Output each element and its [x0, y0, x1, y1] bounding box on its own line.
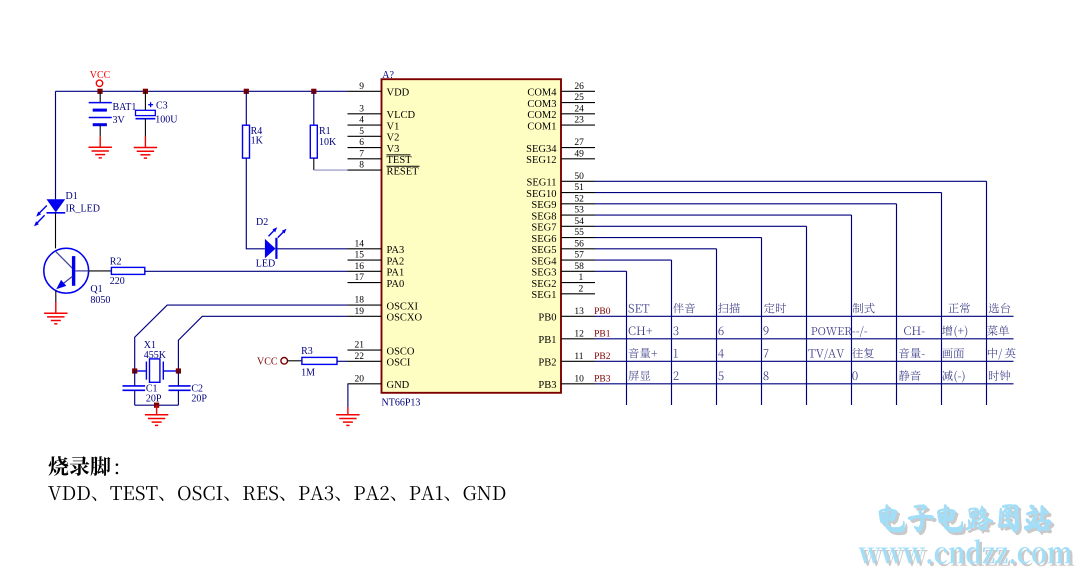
pin 13 PB0 stub — [561, 315, 595, 317]
junction oscillator ground node — [154, 403, 159, 408]
wire SEG3 horizontal — [595, 270, 627, 272]
svg-text:SEG34: SEG34 — [526, 144, 557, 155]
svg-text:220: 220 — [110, 276, 125, 287]
svg-text:20P: 20P — [191, 394, 207, 405]
svg-text:A?: A? — [382, 70, 394, 81]
pin 57 SEG4 stub — [561, 259, 595, 261]
matrix label 3 — [673, 326, 678, 335]
svg-text:14: 14 — [355, 239, 365, 249]
svg-text:PB3: PB3 — [594, 374, 611, 384]
svg-text:SEG6: SEG6 — [531, 234, 556, 245]
svg-text:PB3: PB3 — [538, 380, 556, 391]
wire BAT1 ground stub — [99, 136, 101, 147]
svg-text:BAT1: BAT1 — [113, 102, 137, 113]
wire SEG4 vertical (matrix column) — [671, 260, 673, 405]
pin 27 SEG34 stub — [561, 147, 595, 149]
svg-text:52: 52 — [574, 194, 584, 204]
matrix label 6 — [718, 326, 723, 335]
svg-text:C3: C3 — [156, 101, 168, 112]
pin 8 RESET stub — [348, 169, 382, 171]
pin 23 COM1 stub — [561, 124, 595, 126]
pin 51 SEG10 stub — [561, 192, 595, 194]
pin 6 V3 stub — [348, 147, 382, 149]
wire R4 to D2 — [246, 158, 265, 249]
svg-text:SEG9: SEG9 — [531, 200, 556, 211]
svg-text:R2: R2 — [110, 257, 122, 268]
svg-text:1M: 1M — [301, 368, 315, 379]
wire SEG7 horizontal — [595, 225, 807, 227]
capacitor C2 — [169, 386, 191, 390]
wire SEG11 horizontal — [595, 180, 987, 182]
svg-text:17: 17 — [355, 273, 365, 283]
wire R1 bottom lead — [313, 158, 315, 170]
svg-text:SEG12: SEG12 — [526, 155, 556, 166]
junction VCC/R4 — [244, 89, 249, 94]
svg-text:51: 51 — [574, 183, 584, 193]
svg-text:58: 58 — [574, 262, 584, 272]
svg-text:PB1: PB1 — [538, 335, 556, 346]
matrix label 1 — [674, 349, 678, 358]
pin 4 V1 stub — [348, 124, 382, 126]
wire PB2 matrix row — [595, 360, 1014, 362]
svg-text:7: 7 — [359, 149, 364, 159]
matrix label YinLiang- — [899, 348, 909, 358]
wire Q1 base to R2 — [89, 270, 112, 272]
svg-text:SEG1: SEG1 — [531, 290, 556, 301]
pin 20 GND stub — [348, 383, 382, 385]
svg-text:455K: 455K — [144, 350, 167, 361]
svg-text:SEG5: SEG5 — [531, 245, 556, 256]
svg-text:20: 20 — [355, 374, 365, 384]
svg-text:23: 23 — [574, 116, 584, 126]
junction X1 left node — [132, 368, 137, 373]
matrix label ZhengChang — [948, 303, 958, 313]
note programming pin list — [48, 486, 61, 500]
svg-text:PA3: PA3 — [387, 245, 405, 256]
svg-text:GND: GND — [387, 380, 410, 391]
diode D2 LED — [265, 238, 277, 259]
matrix label JingYin — [899, 370, 910, 380]
svg-text:D1: D1 — [66, 191, 78, 202]
pin 26 COM4 stub — [561, 90, 595, 92]
wire SEG5 vertical (matrix column) — [716, 249, 718, 405]
wire BAT1 top lead — [99, 91, 101, 102]
svg-text:16: 16 — [355, 262, 365, 272]
matrix label HuaMian — [942, 348, 952, 358]
matrix label 2 — [674, 371, 679, 380]
svg-text:20P: 20P — [146, 394, 162, 405]
svg-text:1K: 1K — [251, 136, 264, 147]
wire D1 to Q1 collector — [55, 213, 57, 249]
pin 55 SEG6 stub — [561, 237, 595, 239]
svg-text:5: 5 — [359, 127, 364, 137]
svg-text:COM2: COM2 — [527, 110, 556, 121]
battery BAT1 — [89, 103, 112, 125]
pin 15 PA2 stub — [348, 259, 382, 261]
svg-text:24: 24 — [574, 104, 584, 114]
svg-text:PA1: PA1 — [387, 268, 405, 279]
svg-text:2: 2 — [579, 284, 584, 294]
ground X1 — [145, 415, 168, 426]
pin 12 PB1 stub — [561, 338, 595, 340]
svg-text:V1: V1 — [387, 121, 400, 132]
pin 11 PB2 stub — [561, 360, 595, 362]
pin 54 SEG7 stub — [561, 225, 595, 227]
resistor R3 — [302, 357, 337, 364]
watermark logo dianzidianlutuzhan — [882, 507, 907, 534]
matrix label CaiDan — [987, 325, 997, 335]
wire SEG3 vertical (matrix column) — [626, 271, 628, 405]
svg-text:PB2: PB2 — [538, 358, 556, 369]
wire GND ground stub — [347, 407, 349, 415]
pin 25 COM3 stub — [561, 102, 595, 104]
svg-text:VCC: VCC — [257, 357, 278, 368]
pin 14 PA3 stub — [348, 248, 382, 250]
svg-text:TEST: TEST — [387, 155, 413, 166]
power VCC circle (R3) — [281, 358, 288, 365]
svg-text:COM1: COM1 — [527, 121, 556, 132]
svg-text:8: 8 — [359, 161, 364, 171]
matrix label POWER — [811, 327, 817, 335]
matrix label XuanTai — [989, 303, 999, 313]
svg-text:22: 22 — [355, 352, 365, 362]
svg-text:PB1: PB1 — [594, 329, 611, 339]
pin 52 SEG9 stub — [561, 203, 595, 205]
svg-text:V3: V3 — [387, 144, 400, 155]
svg-text:21: 21 — [355, 341, 365, 351]
svg-text:SEG8: SEG8 — [531, 211, 556, 222]
svg-text:6: 6 — [359, 138, 364, 148]
svg-text:3: 3 — [359, 104, 364, 114]
pin 21 OSCO stub — [348, 349, 382, 351]
svg-text:SEG4: SEG4 — [531, 256, 557, 267]
svg-text:OSCO: OSCO — [387, 346, 415, 357]
matrix label SaoMiao — [718, 303, 728, 313]
junction X1 right node — [176, 368, 181, 373]
matrix label 8 — [763, 371, 768, 380]
ground C3 — [134, 148, 157, 159]
svg-text:PB0: PB0 — [594, 307, 611, 317]
matrix label BanYin — [673, 303, 684, 313]
wire C1 top — [134, 371, 136, 386]
svg-text:PB2: PB2 — [594, 352, 611, 362]
svg-text:PA2: PA2 — [387, 256, 405, 267]
svg-text:PA0: PA0 — [387, 279, 405, 290]
matrix label 9 — [763, 326, 768, 335]
svg-text:53: 53 — [574, 206, 584, 216]
svg-text:55: 55 — [574, 228, 584, 238]
wire SEG8 horizontal — [595, 214, 852, 216]
svg-text:25: 25 — [574, 93, 584, 103]
svg-text:SEG11: SEG11 — [527, 178, 557, 189]
wire Q1 emitter down — [55, 290, 57, 302]
svg-text:10: 10 — [574, 374, 584, 384]
crystal X1 — [135, 359, 179, 382]
TEST overline — [387, 154, 411, 156]
pin 17 PA0 stub — [348, 282, 382, 284]
wire OSCXO — [178, 316, 347, 371]
svg-text:OSCXI: OSCXI — [387, 301, 419, 312]
svg-text:54: 54 — [574, 217, 584, 227]
matrix label Jian(-) — [942, 370, 952, 380]
matrix label CH- — [904, 326, 911, 335]
wire oscillator bottom — [135, 404, 179, 406]
svg-text:VLCD: VLCD — [387, 110, 416, 121]
RESET overline — [387, 165, 420, 167]
wire SEG10 vertical (matrix column) — [941, 193, 943, 405]
svg-text:19: 19 — [355, 307, 365, 317]
pin 22 OSCI stub — [348, 360, 382, 362]
svg-text:3V: 3V — [113, 115, 126, 126]
svg-text:18: 18 — [355, 296, 365, 306]
watermark url www.cndzz.com — [861, 550, 883, 566]
wire C2 bottom — [177, 390, 179, 405]
svg-text:VDD: VDD — [387, 88, 410, 99]
matrix label 0 — [852, 371, 857, 380]
wire R3 to OSCI — [337, 360, 348, 362]
svg-text:26: 26 — [574, 82, 584, 92]
wire OSCXI — [135, 305, 348, 371]
junction VCC/BAT1 — [97, 89, 102, 94]
wire SEG4 horizontal — [595, 259, 672, 261]
wire PB0 matrix row — [595, 315, 1014, 317]
svg-text:SEG3: SEG3 — [531, 268, 556, 279]
junction VCC/R1 — [311, 89, 316, 94]
wire GND pin down — [347, 384, 349, 407]
capacitor C3 — [136, 110, 156, 115]
pin 50 SEG11 stub — [561, 180, 595, 182]
svg-text:50: 50 — [574, 172, 584, 182]
wire Q1 ground stub — [55, 302, 57, 313]
D2 arrows — [269, 227, 287, 237]
svg-text:12: 12 — [574, 329, 584, 339]
svg-text:56: 56 — [574, 239, 584, 249]
pin 5 V2 stub — [348, 135, 382, 137]
svg-text:OSCI: OSCI — [387, 358, 411, 369]
wire SEG8 vertical (matrix column) — [851, 215, 853, 405]
wire SEG7 vertical (matrix column) — [806, 226, 808, 405]
svg-text:LED: LED — [256, 258, 275, 269]
pin 19 OSCXO stub — [348, 315, 382, 317]
svg-text:COM3: COM3 — [527, 99, 556, 110]
svg-text:IR_LED: IR_LED — [66, 204, 100, 215]
svg-text:10K: 10K — [319, 137, 337, 148]
junction VCC/C3 — [143, 89, 148, 94]
svg-text:4: 4 — [359, 116, 364, 126]
matrix label 4 — [718, 349, 724, 358]
diode D1 IR_LED — [47, 199, 66, 213]
svg-text:COM4: COM4 — [527, 88, 557, 99]
svg-text:VCC: VCC — [90, 70, 111, 81]
matrix label YinLiang+ — [629, 348, 639, 358]
matrix label Zhong/Ying — [988, 348, 997, 358]
matrix label ZhiShi — [853, 303, 863, 313]
wire C3 top lead — [144, 91, 146, 110]
pin 24 COM2 stub — [561, 113, 595, 115]
ground BAT1 — [89, 147, 112, 158]
pin 16 PA1 stub — [348, 270, 382, 272]
matrix label TV/AV — [808, 349, 815, 357]
wire SEG9 horizontal — [595, 203, 897, 205]
wire VCC rail — [56, 90, 348, 92]
ground IC GND — [336, 415, 359, 426]
wire R2 to PA1 — [145, 270, 348, 272]
matrix label Zeng(+) — [942, 325, 952, 335]
svg-text:13: 13 — [574, 307, 584, 317]
svg-text:SEG10: SEG10 — [526, 189, 556, 200]
pin 10 PB3 stub — [561, 383, 595, 385]
pin 56 SEG5 stub — [561, 248, 595, 250]
D1 arrows — [34, 206, 47, 227]
matrix label SET — [629, 304, 634, 313]
svg-text:57: 57 — [574, 251, 584, 261]
wire R4 top lead — [245, 91, 247, 125]
wire SEG6 vertical (matrix column) — [761, 238, 763, 405]
svg-text:V2: V2 — [387, 133, 400, 144]
svg-text:SEG7: SEG7 — [531, 223, 556, 234]
wire C3 ground stub — [144, 137, 146, 148]
matrix label --/- — [852, 331, 855, 334]
svg-text:PB0: PB0 — [538, 313, 556, 324]
pin 49 SEG12 stub — [561, 158, 595, 160]
wire VCC to R3 — [288, 360, 302, 362]
wire SEG6 horizontal — [595, 237, 762, 239]
wire D2 to PA3 — [278, 248, 348, 250]
capacitor C3 polarity + — [148, 102, 153, 107]
note heading ShaoLuJiao (programming pins) — [49, 456, 69, 476]
matrix label ShiZhong — [989, 371, 999, 381]
resistor R4 — [243, 125, 250, 158]
wire R1 to RESET pin — [314, 169, 348, 171]
svg-text:NT66P13: NT66P13 — [382, 398, 421, 409]
svg-text:OSCXO: OSCXO — [387, 313, 423, 324]
pin 7 TEST stub — [348, 158, 382, 160]
resistor R1 — [310, 125, 317, 158]
pin 3 VLCD stub — [348, 113, 382, 115]
wire VCC rail to D1 — [55, 91, 57, 199]
wire SEG9 vertical (matrix column) — [896, 204, 898, 405]
wire SEG11 vertical (matrix column) — [986, 181, 988, 405]
pin 18 OSCXI stub — [348, 304, 382, 306]
matrix label 5 — [718, 372, 723, 381]
svg-text:SEG2: SEG2 — [531, 279, 556, 290]
pin 53 SEG8 stub — [561, 214, 595, 216]
pin 9 VDD stub — [348, 90, 382, 92]
matrix label DingShi — [764, 303, 775, 313]
wire X1 ground stub — [156, 405, 158, 415]
ground Q1 — [44, 313, 67, 324]
matrix label WangFu — [852, 348, 863, 358]
wire R1 top lead — [313, 91, 315, 125]
svg-text:9: 9 — [359, 82, 364, 92]
svg-text:Q1: Q1 — [90, 284, 102, 295]
matrix label PingXian — [628, 371, 639, 381]
wire PB3 matrix row — [595, 383, 1014, 385]
svg-text:D2: D2 — [256, 217, 268, 228]
wire C2 top — [177, 371, 179, 386]
matrix label 7 — [763, 349, 768, 357]
wire PB1 matrix row — [595, 338, 1014, 340]
svg-text:8050: 8050 — [90, 295, 110, 306]
svg-text:15: 15 — [355, 251, 365, 261]
transistor Q1 — [44, 248, 89, 293]
pin 2 SEG1 stub — [561, 293, 595, 295]
svg-text:11: 11 — [574, 352, 583, 362]
wire SEG5 horizontal — [595, 248, 717, 250]
power VCC circle — [96, 80, 102, 86]
wire C3 bottom lead — [144, 119, 146, 137]
wire SEG10 horizontal — [595, 192, 942, 194]
pin 1 SEG2 stub — [561, 282, 595, 284]
op-amp U1 NT66P13 IC body — [382, 79, 562, 393]
resistor R2 — [111, 267, 144, 274]
svg-text:1: 1 — [579, 273, 584, 283]
svg-text:100U: 100U — [155, 115, 178, 126]
svg-text:R3: R3 — [301, 346, 313, 357]
svg-text:49: 49 — [574, 149, 584, 159]
wire C1 bottom — [134, 390, 136, 405]
svg-text:27: 27 — [574, 138, 584, 148]
capacitor C1 — [123, 386, 146, 390]
svg-text:R1: R1 — [319, 126, 331, 137]
matrix label CH+ — [629, 326, 636, 335]
wire BAT1 bottom lead — [99, 125, 101, 137]
pin 58 SEG3 stub — [561, 270, 595, 272]
svg-text:RESET: RESET — [387, 166, 420, 177]
